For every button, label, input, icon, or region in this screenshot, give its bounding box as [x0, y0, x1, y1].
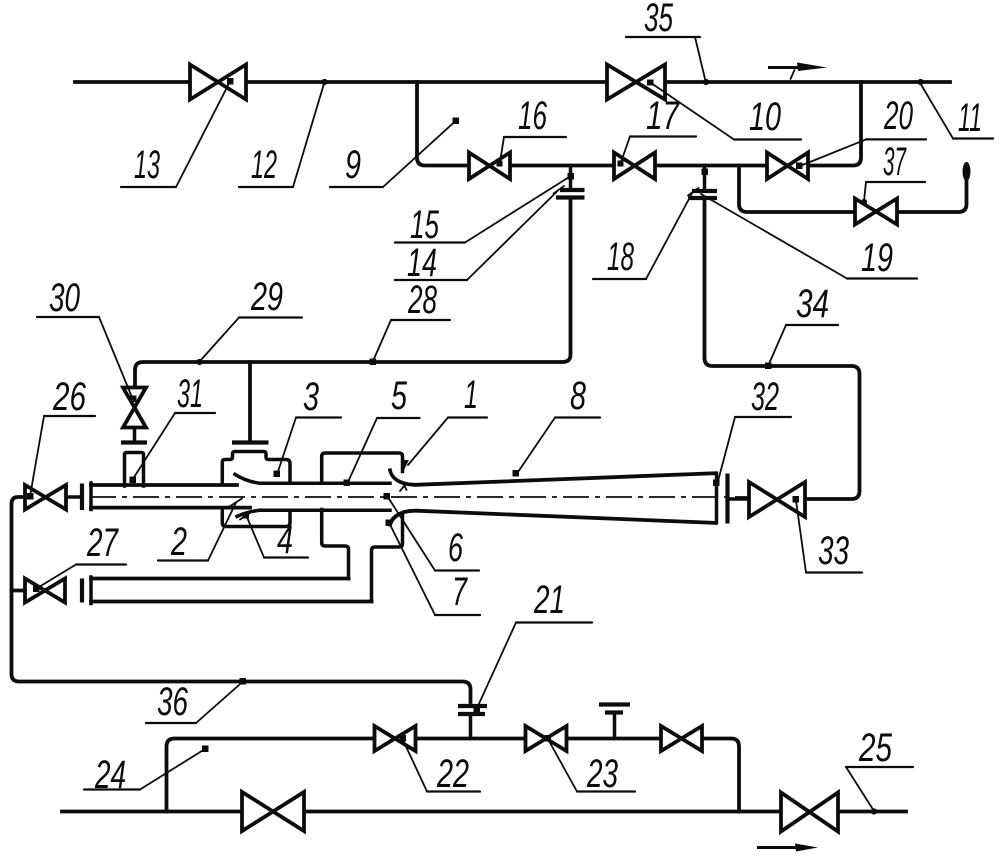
valve 13 on top main line	[190, 65, 246, 100]
tick mark below top arrow	[791, 70, 795, 79]
node 12 on main line	[321, 79, 327, 85]
node dot on capacitor 14 stub (leader 15)	[568, 173, 575, 180]
leader dot of valve 30	[130, 396, 137, 403]
capacitor: flange pair 14/15 stub from bypass	[569, 166, 573, 188]
valve 26 suction inlet	[25, 485, 66, 510]
svg-text:27: 27	[86, 521, 119, 565]
flow arrow on top line	[768, 66, 802, 69]
capacitor: flange pair 18/19 stub from bypass	[703, 166, 707, 189]
svg-text:11: 11	[958, 96, 982, 140]
wire: drop from line 29 to chamber 3 flange	[248, 362, 252, 440]
wire: capacitor 21 stub down to valve line 22/23	[469, 717, 473, 739]
svg-text:8: 8	[570, 374, 587, 418]
flange bar on top of chamber 3	[232, 440, 269, 444]
diffuser exit end cap	[715, 474, 719, 522]
svg-text:21: 21	[533, 578, 565, 622]
capacitor 18 bottom bar	[688, 196, 717, 200]
valve 17 on bypass line	[614, 153, 655, 180]
valve 27 secondary inlet	[25, 579, 65, 603]
duct end cap at valve 27 side	[89, 577, 93, 604]
motive pipe end cap	[89, 483, 93, 510]
chamber 5 casing left lower edge and left foot to duct top	[322, 510, 349, 579]
leader dot of valve 10	[647, 80, 654, 86]
node 28 on line 28	[370, 359, 377, 366]
svg-text:31: 31	[177, 372, 203, 416]
svg-text:32: 32	[751, 375, 779, 419]
node 25 on bottom main line	[871, 808, 877, 814]
svg-text:36: 36	[157, 680, 189, 724]
capacitor 21 bottom bar	[458, 712, 485, 716]
motive pipe top wall	[91, 483, 237, 487]
leader dot of flange 32	[713, 480, 720, 487]
leader dot of valve 26	[27, 493, 34, 500]
motive pipe bottom wall	[91, 506, 250, 510]
leader dot of valve 27	[33, 586, 40, 593]
wire: line 28/29 from capacitor 14 down and left to valve 30	[135, 200, 571, 387]
vent stub top bar	[599, 702, 630, 706]
chamber 5 casing right foot from duct bottom	[372, 514, 403, 602]
node 29 on line 29	[196, 359, 202, 365]
svg-text:4: 4	[277, 518, 293, 562]
valve before node 25 on bottom main line	[781, 793, 838, 832]
svg-text:2: 2	[170, 520, 187, 564]
flange bar after valve 27	[80, 579, 84, 603]
vent stub on valve line at x=614	[613, 714, 617, 739]
leader dot of chamber 5	[344, 480, 351, 487]
svg-text:18: 18	[607, 235, 634, 279]
leader dot of valve 37	[861, 199, 867, 205]
wire: stub to valve 27	[12, 589, 26, 593]
valve 37 on vent line	[855, 199, 897, 225]
flange bar 32 after diffuser	[725, 474, 729, 524]
leader dot of valve 20	[796, 163, 803, 170]
svg-text:26: 26	[52, 375, 86, 419]
svg-text:33: 33	[818, 529, 849, 573]
stub valve 26 to flange	[66, 495, 80, 499]
valve 33 after diffuser	[749, 482, 805, 517]
svg-text:10: 10	[749, 95, 781, 139]
svg-text:9: 9	[345, 143, 361, 187]
chamber 3 outline upper part	[222, 452, 290, 484]
leader dot of lip 7	[386, 520, 393, 527]
svg-text:34: 34	[796, 282, 829, 326]
wire: bottom main pipeline 24/25	[62, 810, 906, 814]
node 34 on line 34	[765, 363, 772, 370]
svg-text:7: 7	[452, 570, 468, 614]
svg-text:30: 30	[49, 276, 80, 320]
centerline of ejector axis (dash-dot)	[90, 496, 753, 498]
valve 22 on bottom branch line	[375, 726, 416, 751]
capacitor 21 top bar	[458, 704, 487, 708]
leader dot of fitting 31	[130, 477, 137, 484]
valve 16 on bypass line	[469, 153, 510, 180]
svg-text:22: 22	[436, 752, 469, 796]
leader dot of valve 23	[545, 735, 552, 742]
vent stub bottom bar	[605, 710, 623, 714]
tick on capacitor 18 bar (leaders 18/19)	[688, 188, 699, 196]
wire: line 34 from capacitor 18 down, right and down to valve 33	[705, 201, 860, 500]
unnamed valve on bottom branch line	[661, 726, 702, 751]
duct from valve 27 bottom wall	[91, 600, 372, 604]
valve 10/35 on top main line	[607, 65, 665, 100]
node 11 on main line	[917, 79, 923, 85]
mixing chamber bellmouth top lip and diffuser 8 top line	[390, 470, 716, 485]
wire: drop from main line to bypass line 9	[417, 82, 861, 166]
leader dot of diffuser 8	[513, 470, 520, 477]
leader dot of valve 16	[497, 161, 503, 167]
floating leader dot of line 24	[202, 746, 209, 753]
valve 20 on bypass line	[767, 153, 808, 180]
chamber 5 casing top and right upper edge	[322, 453, 403, 483]
svg-text:1: 1	[464, 373, 478, 417]
connector flange 32 to valve 33	[729, 497, 749, 501]
leader dot of valve 22	[400, 735, 407, 742]
flow arrow on bottom line	[757, 846, 800, 849]
nozzle tube bottom wall to mixing chamber	[260, 508, 390, 512]
svg-text:17: 17	[646, 94, 680, 138]
vent candle ball after valve 37	[963, 162, 971, 181]
node 9 leader dot	[453, 118, 460, 125]
svg-text:20: 20	[883, 94, 913, 138]
leader dot of valve 13	[227, 78, 234, 85]
valve 30 (vertical bowtie)	[123, 388, 146, 428]
node 36 on line 36	[240, 678, 247, 685]
leader dot of valve 17	[618, 161, 624, 167]
tick of leader 2 at pipe end	[230, 499, 243, 507]
leader dot of capacitor 21	[474, 706, 481, 713]
svg-text:19: 19	[861, 236, 893, 280]
node 35 on main line	[703, 79, 709, 85]
small tick below arrow 1 at throat	[400, 486, 407, 492]
svg-text:29: 29	[250, 275, 283, 319]
nozzle 2 top converging curve	[235, 474, 260, 483]
svg-text:13: 13	[134, 143, 160, 187]
svg-text:28: 28	[407, 278, 437, 322]
svg-text:35: 35	[644, 0, 673, 40]
valve 23 on bottom branch line	[526, 726, 567, 751]
svg-text:5: 5	[391, 374, 408, 418]
svg-text:25: 25	[858, 726, 892, 770]
wire: valve line 22/23 with riser from bottom main line and drop at right	[167, 739, 740, 812]
svg-text:16: 16	[518, 94, 547, 138]
nozzle tube top wall to mixing chamber	[260, 482, 390, 486]
flange bar before motive pipe (after valve 26)	[80, 484, 84, 511]
leader dot of chamber 3	[274, 471, 281, 478]
mixing chamber bellmouth bottom lip 7 and diffuser 8 bottom line	[390, 511, 716, 525]
node dot on capacitor 18 stub	[702, 169, 709, 176]
nozzle 4 bottom converging curve	[237, 510, 260, 516]
flange bar above fitting 31	[121, 440, 147, 444]
wire: branch from bypass down to valve 37 line	[739, 166, 967, 213]
duct from valve 27 top wall	[91, 577, 349, 581]
svg-text:37: 37	[883, 140, 907, 184]
leader dot of valve 33	[793, 496, 800, 503]
capacitor 18 top bar	[692, 189, 717, 193]
capacitor 14 bottom bar	[556, 195, 585, 199]
svg-text:23: 23	[586, 752, 618, 796]
wire: line 36 from suction header down to bottom area	[12, 497, 471, 702]
wire: top main pipeline 12/35/11	[75, 80, 950, 84]
leader dot of nozzle 4 with tick	[243, 512, 250, 519]
capacitor 14 top bar	[560, 188, 585, 192]
svg-text:6: 6	[448, 526, 464, 570]
svg-text:12: 12	[251, 143, 277, 187]
chamber 3 outline lower part	[222, 510, 290, 527]
fitting 31 body	[125, 453, 144, 487]
node 6 on centerline	[384, 493, 391, 500]
stub valve 30 to flange 31	[133, 428, 137, 441]
svg-text:3: 3	[303, 375, 319, 419]
unnamed valve on bottom main line left	[242, 792, 304, 831]
tick on capacitor 14 bar (leader 14)	[554, 186, 565, 194]
